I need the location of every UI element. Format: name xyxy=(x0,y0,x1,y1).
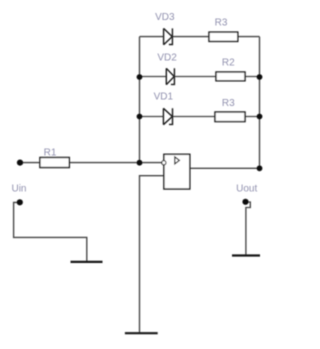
svg-text:R1: R1 xyxy=(44,147,57,158)
svg-text:R2: R2 xyxy=(222,58,235,69)
svg-text:Uout: Uout xyxy=(236,183,257,194)
svg-text:VD1: VD1 xyxy=(154,91,174,102)
svg-text:Uin: Uin xyxy=(11,183,26,194)
svg-text:VD2: VD2 xyxy=(157,53,177,64)
svg-text:R3: R3 xyxy=(222,98,235,109)
svg-text:R3: R3 xyxy=(215,18,228,29)
svg-text:VD3: VD3 xyxy=(155,12,175,23)
